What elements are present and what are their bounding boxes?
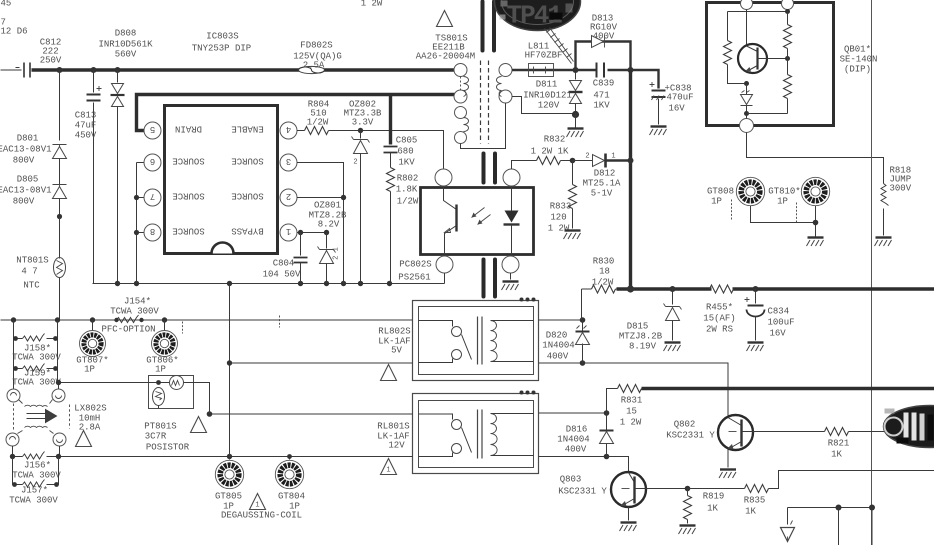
svg-text:2.8A: 2.8A <box>79 423 101 433</box>
svg-text:8: 8 <box>150 226 155 236</box>
diode D811 <box>506 70 583 128</box>
resistor R831 <box>607 385 643 428</box>
ground below C834 <box>747 343 764 352</box>
svg-text:POSISTOR: POSISTOR <box>146 443 190 453</box>
test point GT810 <box>768 177 829 222</box>
wire 12V bus thick <box>617 285 934 292</box>
ground below R819 <box>679 526 696 535</box>
svg-text:1: 1 <box>386 467 390 475</box>
transformer TS801S <box>416 34 512 149</box>
svg-text:2: 2 <box>353 159 357 167</box>
inductor L811 <box>512 42 596 77</box>
svg-text:R832: R832 <box>544 135 566 145</box>
svg-text:KSC2331 Y: KSC2331 Y <box>558 487 607 497</box>
ground below D815 <box>664 343 681 352</box>
wire right border vertical <box>871 0 873 545</box>
pin 5 DRAIN <box>144 122 202 139</box>
jumper R818 <box>881 166 912 236</box>
zener OZ802 <box>344 100 382 284</box>
isolation barrier bars lower <box>484 260 496 297</box>
svg-text:1: 1 <box>255 502 259 510</box>
svg-text:1KV: 1KV <box>593 101 610 111</box>
svg-text:1 2W: 1 2W <box>361 0 383 9</box>
capacitor C839 <box>593 63 655 111</box>
svg-text:1P: 1P <box>84 365 95 375</box>
op-amp U1 IC803S body <box>165 106 278 254</box>
wire LX to posistor <box>56 380 149 389</box>
ground below Q803 <box>620 523 637 532</box>
pin 7 SOURCE <box>137 189 205 206</box>
capacitor C812 <box>24 38 62 78</box>
svg-text:1K: 1K <box>745 507 756 517</box>
test point GT808 <box>707 177 765 220</box>
capacitor C804 <box>263 233 308 284</box>
svg-text:2.5A: 2.5A <box>303 61 325 71</box>
svg-text:D812: D812 <box>594 169 616 179</box>
svg-text:47uF: 47uF <box>75 121 97 131</box>
svg-text:R455*: R455* <box>706 303 733 313</box>
resistor R819 <box>684 489 725 524</box>
svg-text:1/2W: 1/2W <box>397 197 419 207</box>
svg-text:300V: 300V <box>890 184 912 194</box>
svg-text:HF70ZBF: HF70ZBF <box>525 51 563 61</box>
svg-text:1/2W: 1/2W <box>307 118 329 128</box>
pin 2 SOURCE <box>231 189 297 206</box>
warning triangle PT <box>191 417 207 433</box>
svg-text:MT25.1A: MT25.1A <box>583 179 621 189</box>
svg-text:TCWA 300V: TCWA 300V <box>12 378 61 388</box>
jumper J157 <box>9 457 59 506</box>
svg-text:680: 680 <box>397 147 413 157</box>
warning triangle 1 below RL801S <box>381 459 397 475</box>
posistor PT801S <box>144 376 209 453</box>
svg-text:45: 45 <box>1 0 12 9</box>
resistor R804 <box>297 100 444 169</box>
photo inset ellipse TP41 <box>495 0 581 31</box>
svg-text:2: 2 <box>585 153 589 161</box>
svg-text:16V: 16V <box>770 329 787 339</box>
svg-text:2 1: 2 1 <box>333 247 341 260</box>
fuse FD802S <box>293 41 342 74</box>
resistor R802 <box>387 168 419 284</box>
jumper J159 <box>12 364 61 388</box>
svg-text:3C7R: 3C7R <box>145 432 167 442</box>
svg-text:120V: 120V <box>538 101 560 111</box>
svg-text:D808: D808 <box>115 29 137 39</box>
resistor R835 <box>688 471 934 517</box>
svg-text:DRAIN: DRAIN <box>175 124 202 134</box>
warning triangle 1 degauss <box>250 494 266 510</box>
svg-text:1: 1 <box>286 226 291 236</box>
transistor Q802 <box>666 415 753 468</box>
svg-text:Q802: Q802 <box>674 420 696 430</box>
svg-text:104 50V: 104 50V <box>263 270 301 280</box>
svg-text:R831: R831 <box>621 396 643 406</box>
svg-text:400V: 400V <box>593 32 615 42</box>
svg-text:Q803: Q803 <box>560 475 582 485</box>
svg-text:OZ801: OZ801 <box>314 201 341 211</box>
svg-text:NT801S: NT801S <box>16 256 48 266</box>
svg-text:GT810*: GT810* <box>768 187 800 197</box>
svg-text:TCWA 300V: TCWA 300V <box>9 496 58 506</box>
svg-text:120: 120 <box>550 213 566 223</box>
svg-text:C813: C813 <box>75 111 97 121</box>
svg-text:RL802S: RL802S <box>378 327 410 337</box>
svg-text:GT804: GT804 <box>278 492 305 502</box>
wire Q803 base node <box>646 486 691 492</box>
svg-text:4: 4 <box>286 124 291 134</box>
svg-text:PS2561: PS2561 <box>398 273 430 283</box>
svg-text:J157*: J157* <box>21 486 48 496</box>
text PFC-OPTION <box>101 316 279 335</box>
svg-text:400V: 400V <box>547 352 569 362</box>
resistor R821 <box>753 428 887 460</box>
pin 6 SOURCE <box>137 154 205 171</box>
svg-text:12 D6: 12 D6 <box>1 27 28 37</box>
svg-text:J156*: J156* <box>24 461 51 471</box>
diode D805 <box>0 175 67 220</box>
svg-text:470uF: 470uF <box>667 93 694 103</box>
svg-text:TCWA 300V: TCWA 300V <box>12 353 61 363</box>
ground below GT810 <box>807 238 824 247</box>
jumper J158 <box>12 320 61 390</box>
svg-text:5V: 5V <box>391 346 402 356</box>
svg-text:3.3V: 3.3V <box>352 118 374 128</box>
test point GT804 <box>275 454 305 511</box>
junction dots on AC bus <box>57 67 121 73</box>
svg-text:GT805: GT805 <box>215 492 242 502</box>
junction dots PFC line <box>11 317 167 322</box>
svg-text:QB01*: QB01* <box>844 45 871 55</box>
transistor block QB01 SE-140N <box>707 0 878 133</box>
wire relay801 right to D816 <box>539 413 607 457</box>
svg-text:R833: R833 <box>550 202 572 212</box>
svg-text:12V: 12V <box>388 441 405 451</box>
svg-text:SOURCE: SOURCE <box>231 156 263 166</box>
svg-text:NTC: NTC <box>23 281 40 291</box>
ground below R833 <box>564 231 581 240</box>
capacitor C834 <box>745 289 795 341</box>
svg-text:1K: 1K <box>831 450 842 460</box>
svg-text:KSC2331 Y: KSC2331 Y <box>666 431 715 441</box>
wire relay802 contact feed <box>1 319 413 321</box>
svg-text:SOURCE: SOURCE <box>172 156 204 166</box>
ground below Q802 <box>719 470 736 479</box>
svg-text:R830: R830 <box>593 257 615 267</box>
svg-text:C834: C834 <box>768 307 790 317</box>
svg-text:R802: R802 <box>397 174 419 184</box>
svg-text:1: 1 <box>611 153 615 161</box>
pointer line from photo <box>545 28 574 64</box>
svg-text:R821: R821 <box>828 439 850 449</box>
svg-text:C839: C839 <box>593 79 615 89</box>
diode D808 <box>98 29 153 284</box>
wire degauss line <box>10 446 413 459</box>
svg-text:INR10D121: INR10D121 <box>523 91 572 101</box>
isolation barrier bars middle <box>484 154 496 183</box>
svg-text:ENABLE: ENABLE <box>231 124 263 134</box>
svg-text:FD802S: FD802S <box>300 41 332 51</box>
wire relay802 to D820 <box>539 320 583 363</box>
test point GT807 <box>76 320 108 375</box>
svg-text:250V: 250V <box>40 56 62 66</box>
svg-text:16V: 16V <box>669 104 686 114</box>
svg-text:100uF: 100uF <box>768 318 795 328</box>
svg-text:800V: 800V <box>13 197 35 207</box>
photo inset ellipse right <box>884 406 934 448</box>
diode D816 <box>557 410 613 459</box>
svg-text:D816: D816 <box>566 425 588 435</box>
junction dots source return <box>115 281 392 286</box>
text fragment top-left <box>1 0 28 37</box>
svg-text:C805: C805 <box>396 136 418 146</box>
relay RL802S <box>378 298 538 381</box>
svg-text:1N4004: 1N4004 <box>542 341 574 351</box>
svg-text:1P: 1P <box>155 365 166 375</box>
svg-text:15(AF): 15(AF) <box>703 314 735 324</box>
svg-text:RL801S: RL801S <box>377 422 409 432</box>
svg-text:EAC13-08V1: EAC13-08V1 <box>0 145 52 155</box>
svg-text:PFC-OPTION: PFC-OPTION <box>101 325 155 335</box>
warning triangle below RL802S <box>381 365 397 381</box>
svg-text:450V: 450V <box>75 131 97 141</box>
svg-text:15: 15 <box>626 407 637 417</box>
svg-text:INR10D561K: INR10D561K <box>98 40 153 50</box>
svg-text:6: 6 <box>150 156 155 166</box>
svg-text:D820: D820 <box>546 331 568 341</box>
svg-text:MTZJ8.2B: MTZJ8.2B <box>619 332 663 342</box>
resistor R832 <box>512 135 573 170</box>
svg-text:1.8K: 1.8K <box>396 185 418 195</box>
wire bottom-right ground net <box>788 505 876 545</box>
svg-text:EAC13-08V1: EAC13-08V1 <box>0 186 52 196</box>
wire GT808-GT810 tie to ground <box>751 206 819 237</box>
warning triangle LX <box>76 431 92 447</box>
wire relay801 contact feed <box>207 411 413 417</box>
svg-text:D805: D805 <box>17 175 39 185</box>
resistor R830 <box>582 257 619 294</box>
svg-text:8.19V: 8.19V <box>629 342 657 352</box>
svg-text:3: 3 <box>286 156 291 166</box>
text IC803S label <box>192 32 251 54</box>
thermistor NT801S <box>16 217 65 321</box>
capacitor C838 <box>650 70 694 125</box>
earth arrow symbol <box>781 521 795 542</box>
svg-text:TNY253P DIP: TNY253P DIP <box>192 44 251 54</box>
svg-text:8.2V: 8.2V <box>318 220 340 230</box>
svg-text:1 2W: 1 2W <box>548 224 570 234</box>
warning triangle top <box>437 11 453 27</box>
test point GT806 <box>146 320 178 375</box>
resistor R455 <box>703 285 735 335</box>
capacitor C805 <box>384 95 418 168</box>
diode D820 <box>542 289 589 366</box>
svg-text:560V: 560V <box>115 50 137 60</box>
wire main AC bus <box>32 68 458 71</box>
svg-text:SOURCE: SOURCE <box>231 191 263 201</box>
svg-text:R819: R819 <box>703 492 725 502</box>
transistor Q803 <box>558 472 646 521</box>
svg-text:D811: D811 <box>536 80 558 90</box>
svg-text:AA26-20004M: AA26-20004M <box>416 52 475 62</box>
wire QB01 output to R818 <box>747 133 884 171</box>
wire drain loop thick <box>137 95 458 131</box>
jumper J156 <box>12 461 61 481</box>
svg-text:1 2W 1K: 1 2W 1K <box>531 147 569 157</box>
svg-text:4 7: 4 7 <box>21 267 37 277</box>
svg-text:800V: 800V <box>13 156 35 166</box>
svg-text:SOURCE: SOURCE <box>172 191 204 201</box>
line filter LX802S <box>6 389 107 446</box>
ground below R818 <box>875 238 892 247</box>
svg-text:C804: C804 <box>273 259 295 269</box>
svg-text:471: 471 <box>593 91 609 101</box>
svg-text:PT801S: PT801S <box>144 422 176 432</box>
pin 1 BYPASS <box>231 224 297 241</box>
ground below D811 <box>567 129 584 138</box>
zener D815 <box>619 289 682 352</box>
svg-text:1/2W: 1/2W <box>592 278 614 288</box>
svg-text:400V: 400V <box>565 445 587 455</box>
svg-text:1KV: 1KV <box>398 158 415 168</box>
svg-text:1 2W: 1 2W <box>620 418 642 428</box>
svg-text:DEGAUSSING-COIL: DEGAUSSING-COIL <box>221 511 302 521</box>
wire AC input stub <box>1 68 22 71</box>
svg-text:BYPASS: BYPASS <box>231 226 263 236</box>
ground below C838 <box>650 127 667 136</box>
wire opto transistor emitter to return <box>444 273 446 284</box>
svg-text:5: 5 <box>150 124 155 134</box>
svg-text:1P: 1P <box>777 197 788 207</box>
zener OZ801 <box>309 201 347 284</box>
wire relay802 return to Q802 <box>583 363 729 416</box>
diode D801 <box>0 70 67 185</box>
wire source return line <box>93 283 445 285</box>
svg-text:SOURCE: SOURCE <box>172 226 204 236</box>
svg-text:R835: R835 <box>744 496 766 506</box>
pin 3 SOURCE <box>231 154 297 171</box>
svg-text:1N4004: 1N4004 <box>557 435 589 445</box>
diode D812 <box>570 153 634 199</box>
svg-text:IC803S: IC803S <box>206 32 238 42</box>
svg-text:2W RS: 2W RS <box>706 325 733 335</box>
optocoupler PC802S <box>398 169 533 283</box>
wire pins 6-7-8 tie <box>134 163 139 284</box>
test point GT805 <box>215 460 244 511</box>
svg-text:1P: 1P <box>711 197 722 207</box>
wire pin3 to pin2 tie <box>297 163 346 284</box>
svg-text:18: 18 <box>599 267 610 277</box>
wire opto LED cathode to ground <box>502 273 519 290</box>
pin 4 ENABLE <box>231 122 297 139</box>
svg-text:D801: D801 <box>17 134 39 144</box>
wire relay drive line <box>227 284 413 460</box>
diode D813 bypass loop <box>576 14 631 71</box>
resistor R833 <box>548 161 577 234</box>
pin 8 SOURCE <box>137 224 205 241</box>
wire B+ thick vertical <box>629 70 632 289</box>
svg-text:J154*: J154* <box>124 297 151 307</box>
svg-text:1K: 1K <box>707 504 718 514</box>
wire pin1 node <box>297 230 329 235</box>
svg-text:TCWA 300V: TCWA 300V <box>12 471 61 481</box>
wire 5V bus thick <box>642 387 934 390</box>
svg-text:TCWA 300V: TCWA 300V <box>110 307 159 317</box>
svg-text:7: 7 <box>150 191 155 201</box>
svg-text:2: 2 <box>286 191 291 201</box>
jumper J154 <box>110 297 159 323</box>
svg-text:5-1V: 5-1V <box>591 189 613 199</box>
relay RL801S <box>377 391 538 474</box>
isolation barrier bars top <box>483 2 495 51</box>
wire relay801 to Q803 collector <box>607 457 629 473</box>
svg-text:D815: D815 <box>627 322 649 332</box>
svg-text:(DIP): (DIP) <box>844 65 871 75</box>
capacitor C813 <box>75 70 118 284</box>
svg-text:LX802S: LX802S <box>74 404 106 414</box>
junction dots AC secondary <box>573 67 634 73</box>
svg-text:PC802S: PC802S <box>399 260 431 270</box>
svg-text:GT808: GT808 <box>707 187 734 197</box>
